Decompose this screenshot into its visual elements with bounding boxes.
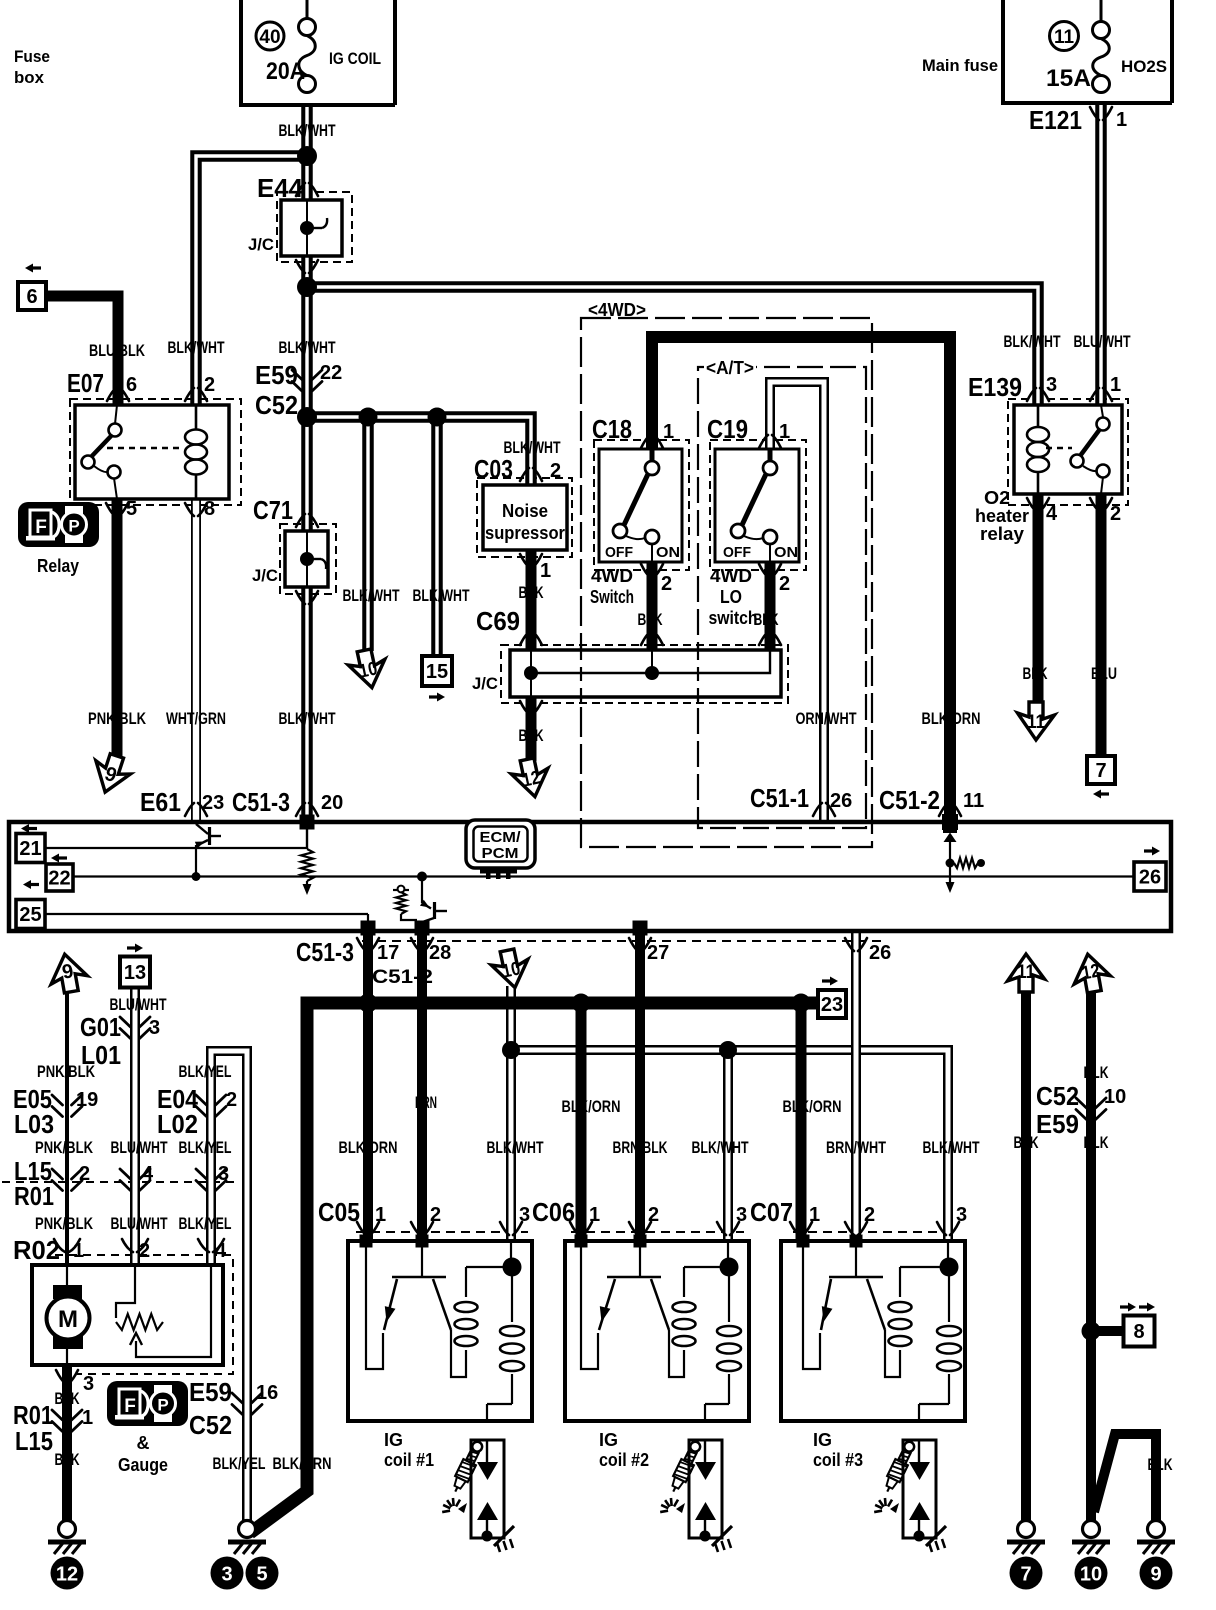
tick C71 top [296,514,318,527]
svg-text:C52: C52 [255,390,298,420]
svg-text:4WD: 4WD [591,566,633,586]
svg-text:heater: heater [975,506,1029,526]
E139 pin 4 [1027,498,1049,511]
svg-text:E44: E44 [257,173,304,203]
svg-text:BLK/ORN: BLK/ORN [922,709,981,728]
connector C51-2 pin 11 [939,803,961,816]
svg-text:switch: switch [709,608,758,628]
svg-text:BLK/ORN: BLK/ORN [339,1138,398,1157]
arrow below box 15 [429,693,445,702]
svg-text:2: 2 [550,460,561,482]
wire BRN C51-2 pin28 to IG coil 1 pin 2 [417,935,427,1241]
junction dot at E44 lower branch [297,277,317,297]
E139 relay box [1014,405,1122,494]
C69 J/C box [510,650,781,697]
4WD option dash-dot box [581,318,872,847]
svg-text:BLU/BLK: BLU/BLK [89,341,146,360]
svg-text:1: 1 [73,1240,84,1262]
svg-text:C51-1: C51-1 [750,783,809,813]
arrow above box 13 [127,944,143,953]
box 7 connector [1087,756,1115,784]
wire ORN/WHT C19 pin1 loop to C51-1 pin 26 [770,382,824,822]
svg-text:23: 23 [202,792,224,814]
connector L15/R01 pins 2 4 3 [52,1169,82,1191]
svg-text:BLK: BLK [55,1389,81,1408]
svg-text:P: P [157,1396,168,1415]
svg-text:12: 12 [1080,961,1101,985]
C18 switch box [599,449,682,562]
svg-text:6: 6 [26,286,37,308]
C19 pin 1 tick [759,435,781,448]
svg-text:IG: IG [599,1430,618,1450]
C19 pin 2 [759,564,781,577]
svg-text:Main fuse: Main fuse [922,56,998,75]
E139 relay dashed outline [1008,399,1128,505]
svg-text:C71: C71 [253,495,293,525]
fuse 11 15A symbol [1093,22,1110,93]
connector C51-3 pin 20 [296,803,318,816]
svg-text:23: 23 [821,994,843,1016]
svg-text:WHT/GRN: WHT/GRN [166,709,226,728]
connector C06 pins [570,1222,592,1235]
fuel pump pin 3 tick [56,1370,78,1383]
svg-text:ECM/: ECM/ [480,829,522,846]
svg-text:8: 8 [204,498,215,520]
svg-text:6: 6 [126,374,137,396]
svg-text:15: 15 [426,661,448,683]
box 23 connector [818,990,846,1018]
svg-text:BLK/WHT: BLK/WHT [413,586,470,605]
svg-text:BRN/WHT: BRN/WHT [826,1138,886,1157]
C69 bottom tick [520,701,542,714]
label A/T bracket [704,359,756,376]
svg-text:BLK/YEL: BLK/YEL [179,1138,232,1157]
connector C05 pins [357,1222,379,1235]
C19 connector dashed outline [710,440,806,570]
svg-text:BLK: BLK [1084,1063,1110,1082]
svg-text:BLK: BLK [519,726,545,745]
svg-text:BLK: BLK [638,610,664,629]
resistor at transistor base [393,886,417,920]
arrow 9 up [46,951,89,995]
svg-text:BLU: BLU [1091,664,1117,683]
ground disc 7 [1010,1557,1043,1590]
svg-text:C07: C07 [750,1197,793,1227]
arrow above box 22 [51,854,67,863]
E07 pin 5 [106,503,128,516]
box 6 connector [18,282,46,310]
wire BLU/BLK from box 6 to E07 pin 6 [46,296,118,405]
E44 connector dashed outline [277,192,352,262]
L15/R01 connector dashed line [2,1181,240,1183]
svg-text:1: 1 [1116,109,1127,131]
svg-text:PCM: PCM [482,845,519,862]
E139 pin 2 [1090,498,1112,511]
square terminals C51-3/C51-2 pins 17 28 27 [361,921,648,936]
ECM internal line from box 25 to pin 17 [45,914,368,924]
svg-text:F: F [124,1396,136,1417]
arrow left of box 25 [23,880,39,889]
svg-text:1: 1 [589,1204,600,1226]
svg-text:ON: ON [656,544,680,561]
svg-text:BLK/YEL: BLK/YEL [179,1062,232,1081]
svg-text:PNK/BLK: PNK/BLK [37,1062,96,1081]
junction dot at box 8 branch [1082,1322,1101,1341]
svg-text:10: 10 [1104,1086,1126,1108]
wire BLU/WHT from main fuse 11 to E139 pin 1 [1095,103,1107,405]
box 13 connector [120,957,150,988]
connector G01/L01 pin 3 [120,1017,150,1039]
junction dot at E59/C52 bus [297,407,447,427]
svg-text:J/C: J/C [472,674,498,693]
junction dot at fuse-box branch [297,146,317,166]
wire BLK/ORN bus to box 23 and down to ground [250,1003,818,1533]
svg-text:&: & [137,1433,150,1453]
ECM box 22 [46,864,73,891]
arrow above box 26 [1144,847,1160,856]
spark plug 2 [660,1439,732,1552]
fuel pump and gauge box [32,1265,223,1365]
junction dots on BLK/WHT coil bus [502,1041,737,1059]
circled 11 [1050,22,1079,51]
svg-text:15A: 15A [1046,65,1091,92]
C18 pin 2 [641,564,663,577]
svg-text:<A/T>: <A/T> [706,358,754,378]
ECM internal line from box 21 [45,847,306,849]
wire WHT/GRN from E07 pin 8 to ECM pin E61-23 [191,499,201,822]
E07 relay box [75,405,229,499]
svg-text:19: 19 [76,1089,98,1111]
ground 9 [1137,1521,1175,1555]
svg-text:BLK: BLK [55,1450,81,1469]
svg-text:16: 16 [256,1382,278,1404]
ECM box 26 [1134,862,1166,891]
svg-text:PNK/BLK: PNK/BLK [88,709,147,728]
svg-text:7: 7 [1095,760,1106,782]
svg-text:BLK: BLK [1148,1455,1174,1474]
IG coil #1 unit [348,1235,532,1422]
connector E59/C52 pin 16 [232,1393,262,1415]
spark plug 3 [874,1439,946,1552]
svg-text:BLK/WHT: BLK/WHT [279,121,336,140]
svg-text:2: 2 [661,573,672,595]
svg-text:1: 1 [663,421,674,443]
svg-text:2: 2 [139,1240,150,1262]
svg-text:L03: L03 [14,1109,54,1139]
svg-text:O2: O2 [984,488,1010,508]
svg-text:R01: R01 [14,1181,54,1211]
E07 relay coil [185,405,207,499]
C03 pin 1 [520,554,542,567]
wire BLK branch to box 8 [1091,1326,1123,1336]
svg-text:C51-2: C51-2 [879,785,940,815]
svg-text:BLK/WHT: BLK/WHT [343,586,400,605]
circled 40 [256,22,284,50]
svg-text:BRN: BRN [415,1093,437,1112]
svg-text:7: 7 [1020,1564,1031,1586]
C18 pin 1 tick [641,435,663,448]
junction dots on BLK/ORN bus [359,994,811,1013]
svg-text:E139: E139 [968,372,1022,402]
ground discs 3 and 5 [211,1557,244,1590]
connector E04/L02 pin 2 [196,1095,226,1117]
svg-text:coil #3: coil #3 [813,1450,863,1470]
svg-text:26: 26 [869,942,891,964]
connector E121 pin 1 [1090,107,1112,120]
wire BLK from E139 pin 4 to arrow 11 [1033,494,1044,704]
svg-text:2: 2 [1110,503,1121,525]
arrow above box 21 [21,824,37,833]
svg-text:Relay: Relay [37,556,79,576]
svg-text:ON: ON [774,544,798,561]
svg-text:13: 13 [124,962,146,984]
svg-text:L02: L02 [157,1109,198,1139]
svg-text:28: 28 [429,942,451,964]
svg-text:20A: 20A [266,58,305,85]
C69 tick entries [520,632,542,645]
svg-text:C52: C52 [1036,1081,1079,1111]
svg-text:BLK/WHT: BLK/WHT [168,338,225,357]
svg-text:E59: E59 [255,360,298,390]
svg-text:1: 1 [1110,374,1121,396]
wire BLK/WHT drop to arrow 10 [362,417,374,651]
transistor at E61 pin 23 input [192,824,222,881]
wire BLK C03 pin 1 to C69 [526,550,537,650]
svg-text:17: 17 [377,942,399,964]
svg-text:M: M [58,1306,78,1333]
svg-text:BLK: BLK [754,610,780,629]
svg-text:3: 3 [149,1017,160,1039]
svg-text:5: 5 [256,1564,267,1586]
svg-text:C52: C52 [189,1410,232,1440]
svg-text:LO: LO [720,587,742,607]
svg-text:26: 26 [1139,867,1161,889]
A/T dash line over C69 [697,646,699,702]
svg-text:L15: L15 [15,1426,53,1456]
svg-text:40: 40 [259,27,280,48]
svg-text:BLK/WHT: BLK/WHT [279,338,336,357]
svg-text:ORN/WHT: ORN/WHT [796,709,857,728]
svg-text:9: 9 [1150,1564,1161,1586]
E07 pin 2 [185,388,207,401]
C71 J/C box [285,531,328,587]
E07 relay dashed link [107,447,183,449]
wire PNK/BLK from E07 pin 5 to arrow 9 [112,499,123,757]
svg-text:BLK/YEL: BLK/YEL [213,1454,266,1473]
connector C52/E59 pin 10 [1076,1098,1106,1120]
diode and resistor at C51-2 pin 11 [943,832,985,894]
wire BLK/WHT branch to E139 pin 3 [307,287,1038,405]
E139 relay switch [1071,405,1110,494]
svg-text:4WD: 4WD [710,566,752,586]
svg-text:1: 1 [82,1407,93,1429]
arrow above box 6 [25,264,41,273]
wire BLK/WHT main vertical E44 to C51-3 pin 20 [301,256,313,818]
svg-text:BLU/WHT: BLU/WHT [111,1214,168,1233]
connector C51-3 pin 17 [357,938,379,951]
box 15 connector [422,656,452,686]
resistor at C51-3 pin 20 input [300,815,315,896]
svg-text:10: 10 [1080,1564,1102,1586]
svg-text:4: 4 [142,1163,154,1185]
ground 12 [48,1521,86,1555]
svg-text:C19: C19 [707,414,748,444]
svg-text:Fuse: Fuse [14,47,50,66]
wire stub above fuse 11 [1100,0,1103,22]
svg-text:E07: E07 [67,368,104,398]
svg-text:Noise: Noise [502,501,548,521]
ECM internal line from box 22 to box 26 [73,875,1134,877]
svg-text:3: 3 [218,1163,229,1185]
svg-text:20: 20 [321,792,343,814]
wire BLK/WHT branch to E07 pin 2 [196,156,307,405]
connector C51-2 pin 27 [629,938,651,951]
E44 J/C box [281,200,342,256]
svg-text:BLU/WHT: BLU/WHT [1074,332,1131,351]
svg-text:2: 2 [79,1163,90,1185]
connector C07 pins [790,1222,812,1235]
connector E59/C52 pin 22 [292,370,322,392]
svg-text:R02: R02 [13,1235,60,1265]
wire BLU/WHT box 13 to fuel pump R02 pin 2 [130,988,140,1265]
svg-text:3: 3 [83,1373,94,1395]
tick C71 bottom [296,591,318,604]
wire stub above fuse 40 [306,0,309,19]
ECM/PCM icon [466,820,535,879]
svg-text:BLK/WHT: BLK/WHT [1004,332,1061,351]
E07 pin 8 [185,503,207,516]
wire BLK C69 to arrow 12 [526,697,537,761]
svg-text:1: 1 [375,1204,386,1226]
svg-text:2: 2 [864,1204,875,1226]
svg-text:E59: E59 [1036,1109,1079,1139]
svg-text:22: 22 [48,868,70,890]
svg-text:C05: C05 [318,1197,360,1227]
svg-text:E61: E61 [140,787,181,817]
svg-text:box: box [14,68,45,87]
C06 coil connector dashed line [571,1231,744,1233]
svg-text:F: F [35,517,47,538]
connector E05/L03 pin 19 [52,1095,82,1117]
svg-text:2: 2 [226,1089,237,1111]
svg-text:BLK/YEL: BLK/YEL [179,1214,232,1233]
svg-text:<4WD>: <4WD> [588,300,646,320]
svg-text:4: 4 [215,1240,227,1262]
svg-text:2: 2 [648,1204,659,1226]
svg-text:coil #1: coil #1 [384,1450,434,1470]
ground disc 9 [1140,1557,1173,1590]
svg-text:E59: E59 [189,1377,232,1407]
svg-text:C69: C69 [476,606,520,636]
svg-text:25: 25 [19,904,41,926]
svg-text:BLK/WHT: BLK/WHT [923,1138,980,1157]
C05 coil connector dashed line [356,1231,528,1233]
wire BLK/WHT drop to IG coil 2 pin 3 [723,1050,733,1241]
E07 relay dashed outline [70,399,241,505]
C18 connector dashed outline [594,440,689,570]
svg-text:3: 3 [1046,374,1057,396]
connector E61 pin 23 [185,803,207,816]
wire thick C18 pin1 loop to C51-2 pin 11 (BLK/ORN) [652,337,950,815]
connector C51-2 pin 28 [411,938,433,951]
main fuse box outline [1003,0,1172,103]
svg-text:2: 2 [779,573,790,595]
svg-text:C51-3: C51-3 [232,787,290,817]
ground 3 5 [228,1521,266,1555]
arrow 11 down [1018,702,1055,740]
C51 connector dashed line below ECM [362,940,881,942]
svg-text:C06: C06 [532,1197,575,1227]
svg-text:C18: C18 [592,414,632,444]
svg-text:BLK/ORN: BLK/ORN [783,1097,842,1116]
IG coil #2 unit [565,1235,749,1422]
arrow 10 down [346,647,390,692]
svg-text:3: 3 [221,1564,232,1586]
wire BLK/ORN to IG coil 3 pin 1 [796,1003,807,1241]
ECM box 25 [16,900,45,929]
wire BRN/BLK C51-2 pin27 to IG coil 2 pin 2 [635,935,645,1241]
wire BLK/ORN to IG coil 2 pin 1 [576,1003,587,1241]
E139 pin 3 [1027,388,1049,401]
svg-text:coil #2: coil #2 [599,1450,649,1470]
arrow 11 up [1008,954,1045,992]
arrows above box 8 [1120,1303,1155,1312]
wire BLK/WHT bus at E59/C52 junction [307,417,531,485]
svg-text:1: 1 [540,560,551,582]
wire BLK/WHT from fuse 40 to E44 junction [301,105,313,200]
svg-text:supressor: supressor [485,523,565,543]
svg-text:BLK: BLK [1084,1133,1110,1152]
svg-text:C51-2: C51-2 [372,967,433,988]
svg-text:G01: G01 [80,1012,121,1042]
svg-text:relay: relay [980,524,1024,544]
4WD dash line over C69 [580,646,582,702]
wire BLK fuel pump pin 3 to ground 12 [62,1365,72,1521]
arrow above box 23 [822,977,838,986]
svg-text:J/C: J/C [252,566,278,585]
svg-text:1: 1 [779,421,790,443]
svg-text:HO2S: HO2S [1121,57,1167,76]
svg-text:C03: C03 [474,454,513,484]
arrow below box 7 [1093,790,1109,799]
ground 10 [1072,1521,1110,1555]
A/T option dash-dot box [698,367,866,828]
ground disc 12 [51,1557,84,1590]
svg-text:J/C: J/C [248,235,274,254]
C03 pin 2 tick [520,468,542,481]
svg-text:BLK/WHT: BLK/WHT [487,1138,544,1157]
svg-text:3: 3 [519,1204,530,1226]
E139 pin 1 [1090,388,1112,401]
E139 relay coil [1027,405,1049,494]
svg-text:E121: E121 [1029,105,1082,135]
box 8 connector [1124,1316,1155,1347]
wire BLU from E139 pin 2 to box 7 [1096,494,1107,757]
spark plug 1 [442,1439,514,1552]
ground 7 [1007,1521,1045,1555]
svg-text:22: 22 [320,362,342,384]
svg-text:BLK: BLK [1014,1133,1040,1152]
svg-text:BLK/ORN: BLK/ORN [273,1454,332,1473]
arrow 12 down [509,756,553,801]
R02 fuel pump dashed outline [55,1255,233,1374]
svg-text:1: 1 [809,1204,820,1226]
transistor at C51-2 pin 28 output [417,872,447,929]
F/P and gauge icon [107,1381,188,1426]
wire BLK C19 pin 2 to C69 [765,562,776,650]
svg-text:BLK/WHT: BLK/WHT [692,1138,749,1157]
svg-text:BLK: BLK [519,583,545,602]
